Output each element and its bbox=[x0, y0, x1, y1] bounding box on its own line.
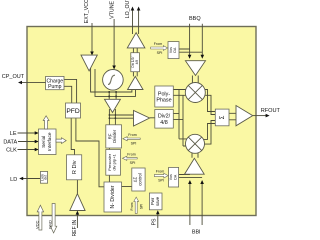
wire PFD to R Div bbox=[71, 118, 74, 155]
box Poly-Phase bbox=[155, 86, 174, 107]
wire divider amp to Div2/4/8 bbox=[150, 117, 155, 119]
wire RFOUT bbox=[253, 115, 267, 117]
svg-text:SPI: SPI bbox=[131, 142, 137, 146]
triangle amp BBI bbox=[185, 158, 205, 174]
hollow arrow VCC up bbox=[37, 205, 43, 230]
arrow BBQ 1 bbox=[188, 55, 192, 59]
box Lock det bbox=[40, 172, 47, 184]
svg-text:RFOUT: RFOUT bbox=[261, 108, 280, 114]
svg-text:det: det bbox=[44, 175, 48, 180]
box R Div bbox=[67, 155, 82, 180]
box Pwr save bbox=[149, 193, 162, 210]
triangle amp LO chain lower bbox=[128, 76, 143, 89]
svg-text:SPI: SPI bbox=[157, 51, 163, 55]
VCO sine symbol bbox=[108, 75, 115, 84]
triangle amp REF IN buffer bbox=[70, 194, 85, 211]
svg-text:From: From bbox=[156, 170, 164, 174]
svg-text:From: From bbox=[154, 42, 162, 46]
box Delta-Sigma control bbox=[132, 168, 145, 191]
svg-text:From: From bbox=[130, 202, 134, 210]
svg-text:SPI: SPI bbox=[158, 178, 164, 182]
svg-text:control: control bbox=[137, 173, 142, 186]
arrow CLK bbox=[35, 148, 39, 152]
wire LO rails bbox=[179, 90, 183, 147]
svg-text:Serial: Serial bbox=[41, 136, 47, 148]
wire RF Divider to Prescaler bbox=[108, 148, 110, 150]
svg-text:SPI: SPI bbox=[130, 161, 136, 165]
svg-text:div p/p+1: div p/p+1 bbox=[112, 153, 117, 170]
box N-Divider bbox=[104, 182, 122, 212]
arrow LO_OUT 2 bbox=[137, 7, 141, 11]
From SPI arrow to RF Divider bbox=[123, 133, 140, 146]
svg-text:R Div: R Div bbox=[72, 160, 78, 174]
VCO oscillator circle bbox=[103, 70, 124, 91]
svg-text:4/8: 4/8 bbox=[135, 60, 139, 65]
box summer bbox=[215, 109, 229, 126]
svg-text:Pump: Pump bbox=[48, 84, 61, 90]
svg-text:BBI: BBI bbox=[192, 229, 201, 235]
From SPI arrow to DA top bbox=[151, 42, 168, 55]
wire BBI amp to lower mixer bbox=[192, 153, 198, 158]
wire lower mixer to summer bbox=[203, 121, 215, 145]
box Serial Interface bbox=[39, 129, 57, 155]
svg-text:LE: LE bbox=[10, 131, 17, 137]
wire REF IN bbox=[76, 214, 78, 229]
svg-text:DA: DA bbox=[173, 174, 177, 180]
svg-text:Σ: Σ bbox=[220, 115, 226, 119]
arrow PS bbox=[156, 210, 160, 214]
svg-text:LO_OUT: LO_OUT bbox=[125, 0, 131, 18]
svg-text:Poly-: Poly- bbox=[158, 91, 170, 97]
svg-text:VCC: VCC bbox=[34, 220, 39, 229]
hollow arrow GND down bbox=[50, 204, 56, 233]
box Charge Pump bbox=[46, 76, 64, 90]
wire CP_OUT bbox=[21, 81, 46, 83]
wire DATA bbox=[18, 141, 36, 143]
wire CP to PFD bbox=[64, 79, 77, 103]
svg-text:DA: DA bbox=[173, 47, 177, 53]
box Prescaler bbox=[106, 150, 121, 176]
arrow DATA bbox=[35, 140, 39, 144]
wire LO_OUT lines bbox=[133, 9, 139, 35]
wire LD bbox=[22, 178, 40, 180]
wire LO divider to LO out amp bbox=[133, 48, 137, 53]
svg-text:Interface: Interface bbox=[47, 132, 53, 151]
mixer upper bbox=[185, 83, 205, 103]
wire rails to lower mixer bbox=[179, 139, 187, 146]
arrow LD bbox=[19, 177, 23, 181]
svg-text:N- Divider: N- Divider bbox=[110, 185, 116, 208]
svg-text:Phase: Phase bbox=[156, 98, 171, 104]
svg-text:PS: PS bbox=[151, 218, 157, 225]
wire Poly-Phase to upper mixer bbox=[173, 90, 186, 96]
svg-text:From: From bbox=[127, 153, 135, 157]
svg-text:CLK: CLK bbox=[6, 148, 17, 154]
arrow RFOUT bbox=[266, 114, 270, 118]
svg-text:LD: LD bbox=[10, 177, 17, 183]
arrowheads bbox=[18, 7, 270, 215]
arrow VTUNE bbox=[112, 66, 116, 70]
triangle amp VCO buffer bbox=[105, 99, 121, 112]
svg-text:Div2/: Div2/ bbox=[158, 114, 171, 120]
svg-text:BBQ: BBQ bbox=[189, 16, 201, 22]
box Div2/4/8 bbox=[155, 110, 174, 129]
wire Div2 outputs to rails bbox=[173, 114, 183, 120]
box DA bottom bbox=[169, 167, 179, 187]
triangle amp divider driver bbox=[134, 111, 150, 127]
chip outline bbox=[27, 27, 256, 216]
From SPI arrow to DS control bottom bbox=[130, 197, 144, 213]
box LO divider bbox=[131, 53, 140, 72]
junction dots bbox=[108, 91, 117, 119]
svg-text:4/8: 4/8 bbox=[160, 120, 168, 126]
wire upper mixer to summer bbox=[205, 90, 215, 115]
svg-text:save: save bbox=[155, 196, 160, 206]
box DA top bbox=[168, 42, 179, 59]
wire VCO buffer to RF Divider bbox=[109, 109, 115, 125]
wire EXT_VCO drop bbox=[91, 23, 93, 53]
arrow EXT_VCO bbox=[90, 52, 94, 56]
wire PFD to N-Divider bbox=[76, 118, 104, 187]
wire branch to divider amp bbox=[109, 115, 133, 118]
svg-text:From: From bbox=[128, 133, 136, 137]
box PFD bbox=[66, 103, 81, 118]
wire VTUNE drop bbox=[113, 19, 115, 66]
wire EXT_VCO buffer output pair bbox=[91, 65, 110, 96]
wire summer to RF amp bbox=[229, 113, 236, 120]
wire DA bottom taps bbox=[179, 175, 203, 178]
wire VCO bottom drops bbox=[109, 91, 116, 99]
wire REF IN amp to R Div bbox=[76, 180, 78, 194]
arrow REF IN bbox=[76, 211, 80, 215]
wire LE bbox=[18, 132, 36, 134]
From SPI arrow to DA bottom bbox=[154, 170, 168, 183]
box RF Divider bbox=[106, 125, 122, 148]
From SPI arrow to Prescaler bbox=[122, 153, 137, 166]
svg-text:Divider: Divider bbox=[112, 129, 117, 143]
triangle amp LO out bbox=[127, 33, 145, 48]
triangle amp RF output bbox=[236, 106, 253, 126]
wire BBI verticals bbox=[190, 183, 202, 225]
wire Prescaler to N-Divider bbox=[108, 175, 110, 182]
svg-text:VTUNE: VTUNE bbox=[110, 0, 116, 18]
wire BBQ drops bbox=[190, 24, 203, 55]
arrow CP_OUT bbox=[18, 81, 22, 85]
arrow BBI 1 bbox=[188, 180, 192, 184]
svg-text:EXT_VCO: EXT_VCO bbox=[84, 0, 90, 23]
wire N-Divider to DS control bbox=[122, 186, 133, 188]
svg-text:GND: GND bbox=[48, 220, 53, 229]
hollow arrow serial interface up bbox=[43, 116, 49, 129]
svg-text:SPI: SPI bbox=[140, 204, 144, 210]
hollow arrow serial interface right bbox=[56, 138, 66, 144]
svg-text:REF IN: REF IN bbox=[72, 219, 78, 236]
wire VCO bus to LO amp bbox=[109, 90, 135, 97]
arrow LE bbox=[35, 131, 39, 135]
svg-text:CP_OUT: CP_OUT bbox=[2, 74, 25, 80]
arrow BBI 2 bbox=[200, 180, 204, 184]
wire BBQ amp to upper mixer bbox=[192, 76, 198, 84]
wire LO amp to LO divider bbox=[133, 72, 137, 77]
triangle amp BBQ bbox=[185, 61, 205, 76]
arrow BBQ 2 bbox=[201, 55, 205, 59]
arrow LO_OUT 1 bbox=[131, 7, 135, 11]
svg-text:DATA: DATA bbox=[3, 140, 17, 146]
mixer lower bbox=[186, 134, 205, 153]
wire CLK bbox=[18, 149, 36, 151]
svg-text:PFD: PFD bbox=[66, 108, 80, 115]
wire DA top taps bbox=[179, 49, 202, 52]
wire PS bbox=[157, 214, 159, 229]
triangle amp EXT_VCO buffer bbox=[81, 55, 97, 71]
